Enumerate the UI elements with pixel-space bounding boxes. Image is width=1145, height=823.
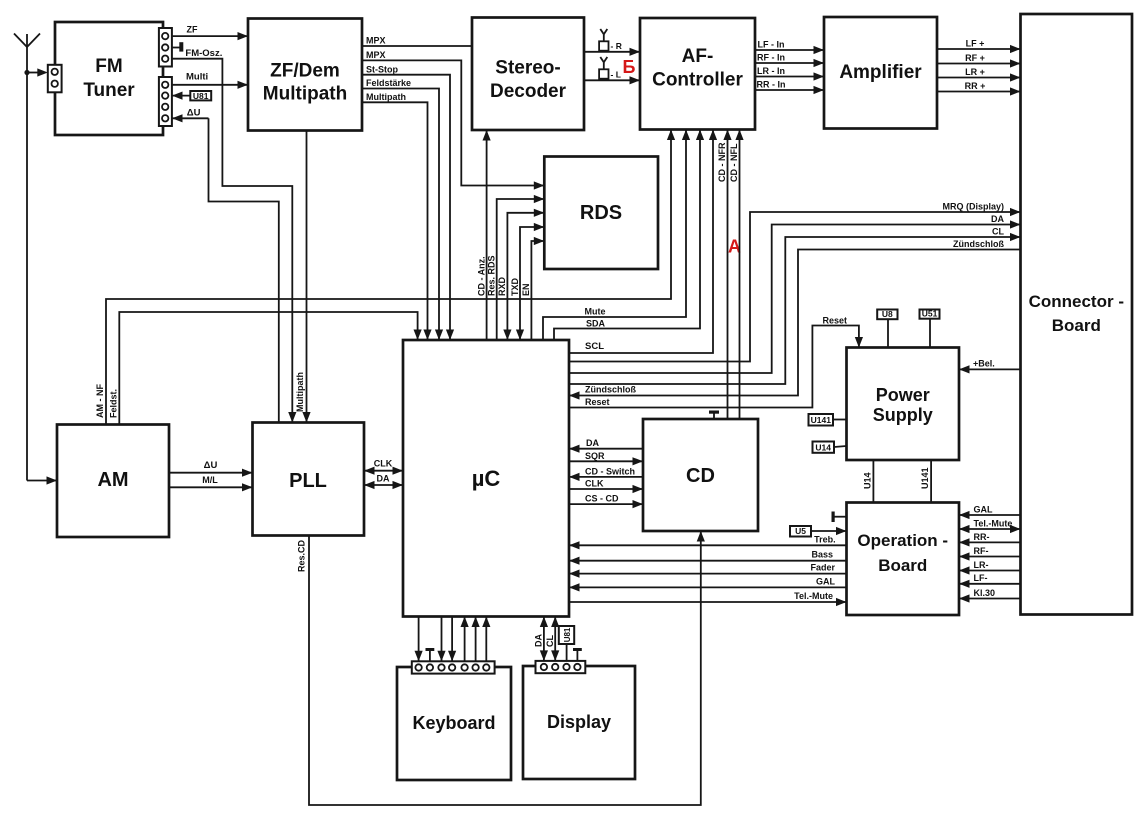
svg-text:Res. RDS: Res. RDS <box>487 255 497 296</box>
svg-text:Feldstärke: Feldstärke <box>366 78 411 88</box>
svg-text:U14: U14 <box>815 442 831 452</box>
svg-text:Kl.30: Kl.30 <box>974 588 996 598</box>
svg-text:Decoder: Decoder <box>490 81 567 102</box>
svg-text:ΔU: ΔU <box>204 460 218 471</box>
svg-text:GAL: GAL <box>974 504 994 514</box>
svg-text:CD - Anz.: CD - Anz. <box>476 256 486 296</box>
svg-text:Feldst.: Feldst. <box>109 389 119 418</box>
svg-text:MRQ (Display): MRQ (Display) <box>942 201 1004 211</box>
svg-text:FM: FM <box>95 56 122 77</box>
svg-text:ΔU: ΔU <box>187 108 201 119</box>
svg-text:Treb.: Treb. <box>814 534 836 544</box>
svg-text:FM-Osz.: FM-Osz. <box>185 48 222 59</box>
svg-text:U81: U81 <box>563 627 572 642</box>
svg-text:Board: Board <box>1052 316 1101 335</box>
svg-text:SQR: SQR <box>585 451 605 461</box>
svg-text:LR - In: LR - In <box>757 66 785 76</box>
svg-text:DA: DA <box>991 214 1004 224</box>
svg-text:St-Stop: St-Stop <box>366 64 398 74</box>
svg-text:Multi: Multi <box>186 72 208 83</box>
svg-text:Tel.-Mute: Tel.-Mute <box>974 518 1013 528</box>
svg-text:MPX: MPX <box>366 50 386 60</box>
svg-text:+Bel.: +Bel. <box>973 359 995 369</box>
svg-text:Display: Display <box>547 712 611 732</box>
svg-text:CS - CD: CS - CD <box>585 494 619 504</box>
svg-text:CLK: CLK <box>374 459 393 469</box>
svg-text:DA: DA <box>377 474 390 484</box>
svg-text:DA: DA <box>534 634 544 647</box>
svg-text:RF - In: RF - In <box>757 52 785 62</box>
svg-text:Stereo-: Stereo- <box>495 58 560 79</box>
svg-text:Tuner: Tuner <box>83 80 135 101</box>
svg-text:U81: U81 <box>193 91 209 101</box>
svg-text:RDS: RDS <box>580 202 622 224</box>
svg-text:AF-: AF- <box>682 46 714 67</box>
svg-text:Res.CD: Res.CD <box>297 539 307 572</box>
svg-text:RF-: RF- <box>974 546 989 556</box>
svg-text:M/L: M/L <box>202 475 218 485</box>
svg-text:CLK: CLK <box>585 479 604 489</box>
svg-text:Fader: Fader <box>810 563 835 573</box>
svg-text:ZF: ZF <box>187 25 198 35</box>
svg-text:Mute: Mute <box>585 307 606 317</box>
svg-text:µC: µC <box>472 466 501 491</box>
svg-text:CD - NFR: CD - NFR <box>717 142 727 182</box>
svg-text:AM - NF: AM - NF <box>95 384 105 418</box>
svg-text:Keyboard: Keyboard <box>412 713 495 733</box>
svg-text:CD - Switch: CD - Switch <box>585 466 635 476</box>
svg-text:Board: Board <box>878 556 927 575</box>
svg-text:Tel.-Mute: Tel.-Mute <box>794 591 833 601</box>
svg-text:Zündschloß: Zündschloß <box>585 385 636 395</box>
svg-text:Multipath: Multipath <box>366 92 406 102</box>
svg-text:Controller: Controller <box>652 70 743 91</box>
svg-text:Supply: Supply <box>873 405 933 425</box>
svg-text:Amplifier: Amplifier <box>839 62 922 83</box>
svg-text:Zündschloß: Zündschloß <box>953 239 1004 249</box>
svg-text:Reset: Reset <box>585 397 610 407</box>
svg-text:CD - NFL: CD - NFL <box>729 143 739 182</box>
svg-text:U141: U141 <box>920 467 930 489</box>
svg-text:RR-: RR- <box>974 532 990 542</box>
svg-text:RXD: RXD <box>497 276 507 296</box>
svg-text:MPX: MPX <box>366 36 386 46</box>
svg-text:DA: DA <box>586 438 599 448</box>
svg-text:PLL: PLL <box>289 470 327 492</box>
svg-text:- L: - L <box>611 69 621 79</box>
svg-text:LF-: LF- <box>974 573 988 583</box>
svg-text:Reset: Reset <box>822 315 847 325</box>
svg-text:Bass: Bass <box>811 550 833 560</box>
svg-text:Connector -: Connector - <box>1029 292 1124 311</box>
svg-text:Multipath: Multipath <box>263 84 347 105</box>
svg-text:Multipath: Multipath <box>295 372 305 412</box>
svg-text:SCL: SCL <box>585 341 604 352</box>
svg-text:Operation -: Operation - <box>857 531 948 550</box>
svg-text:RR +: RR + <box>965 81 986 91</box>
svg-text:CL: CL <box>992 227 1004 237</box>
svg-text:U141: U141 <box>811 415 832 425</box>
svg-text:LR +: LR + <box>965 67 985 77</box>
svg-text:EN: EN <box>521 283 531 296</box>
svg-text:Б: Б <box>623 57 636 77</box>
svg-text:SDA: SDA <box>586 319 606 329</box>
svg-text:RF +: RF + <box>965 53 985 63</box>
svg-text:U5: U5 <box>795 526 806 536</box>
svg-text:AM: AM <box>97 469 128 491</box>
svg-text:CD: CD <box>686 465 715 487</box>
svg-text:GAL: GAL <box>816 576 836 586</box>
svg-text:RR - In: RR - In <box>757 79 786 89</box>
svg-text:TXD: TXD <box>510 277 520 296</box>
svg-text:U8: U8 <box>882 309 893 319</box>
svg-text:- R: - R <box>611 41 622 51</box>
svg-text:Power: Power <box>876 385 930 405</box>
svg-text:LF - In: LF - In <box>758 39 785 49</box>
svg-text:ZF/Dem: ZF/Dem <box>270 61 340 82</box>
svg-text:LF +: LF + <box>966 38 985 48</box>
svg-text:U51: U51 <box>922 309 938 319</box>
svg-text:LR-: LR- <box>974 560 989 570</box>
svg-text:U14: U14 <box>863 472 873 489</box>
svg-text:CL: CL <box>545 635 555 647</box>
